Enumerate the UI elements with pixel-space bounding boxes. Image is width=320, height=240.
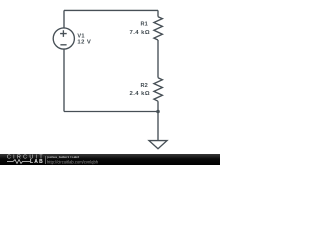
svg-text:V1: V1 [77,33,84,39]
node junction [156,110,160,114]
voltage source V1 [53,28,74,49]
resistor R1 [154,17,163,40]
wire R2 to ground [157,101,159,140]
wire left lower [63,49,65,111]
wire left upper [63,10,65,28]
wire top [64,9,158,11]
wire bottom [64,111,158,113]
svg-text:7.4 kΩ: 7.4 kΩ [129,30,150,36]
wire right upper [157,10,159,16]
svg-text:R2: R2 [140,83,148,89]
ground [149,141,167,149]
svg-text:2.4 kΩ: 2.4 kΩ [129,91,150,97]
svg-text:12 V: 12 V [77,40,91,46]
wire R1 to R2 [157,40,159,78]
svg-text:R1: R1 [140,22,148,28]
resistor R2 [154,78,163,102]
